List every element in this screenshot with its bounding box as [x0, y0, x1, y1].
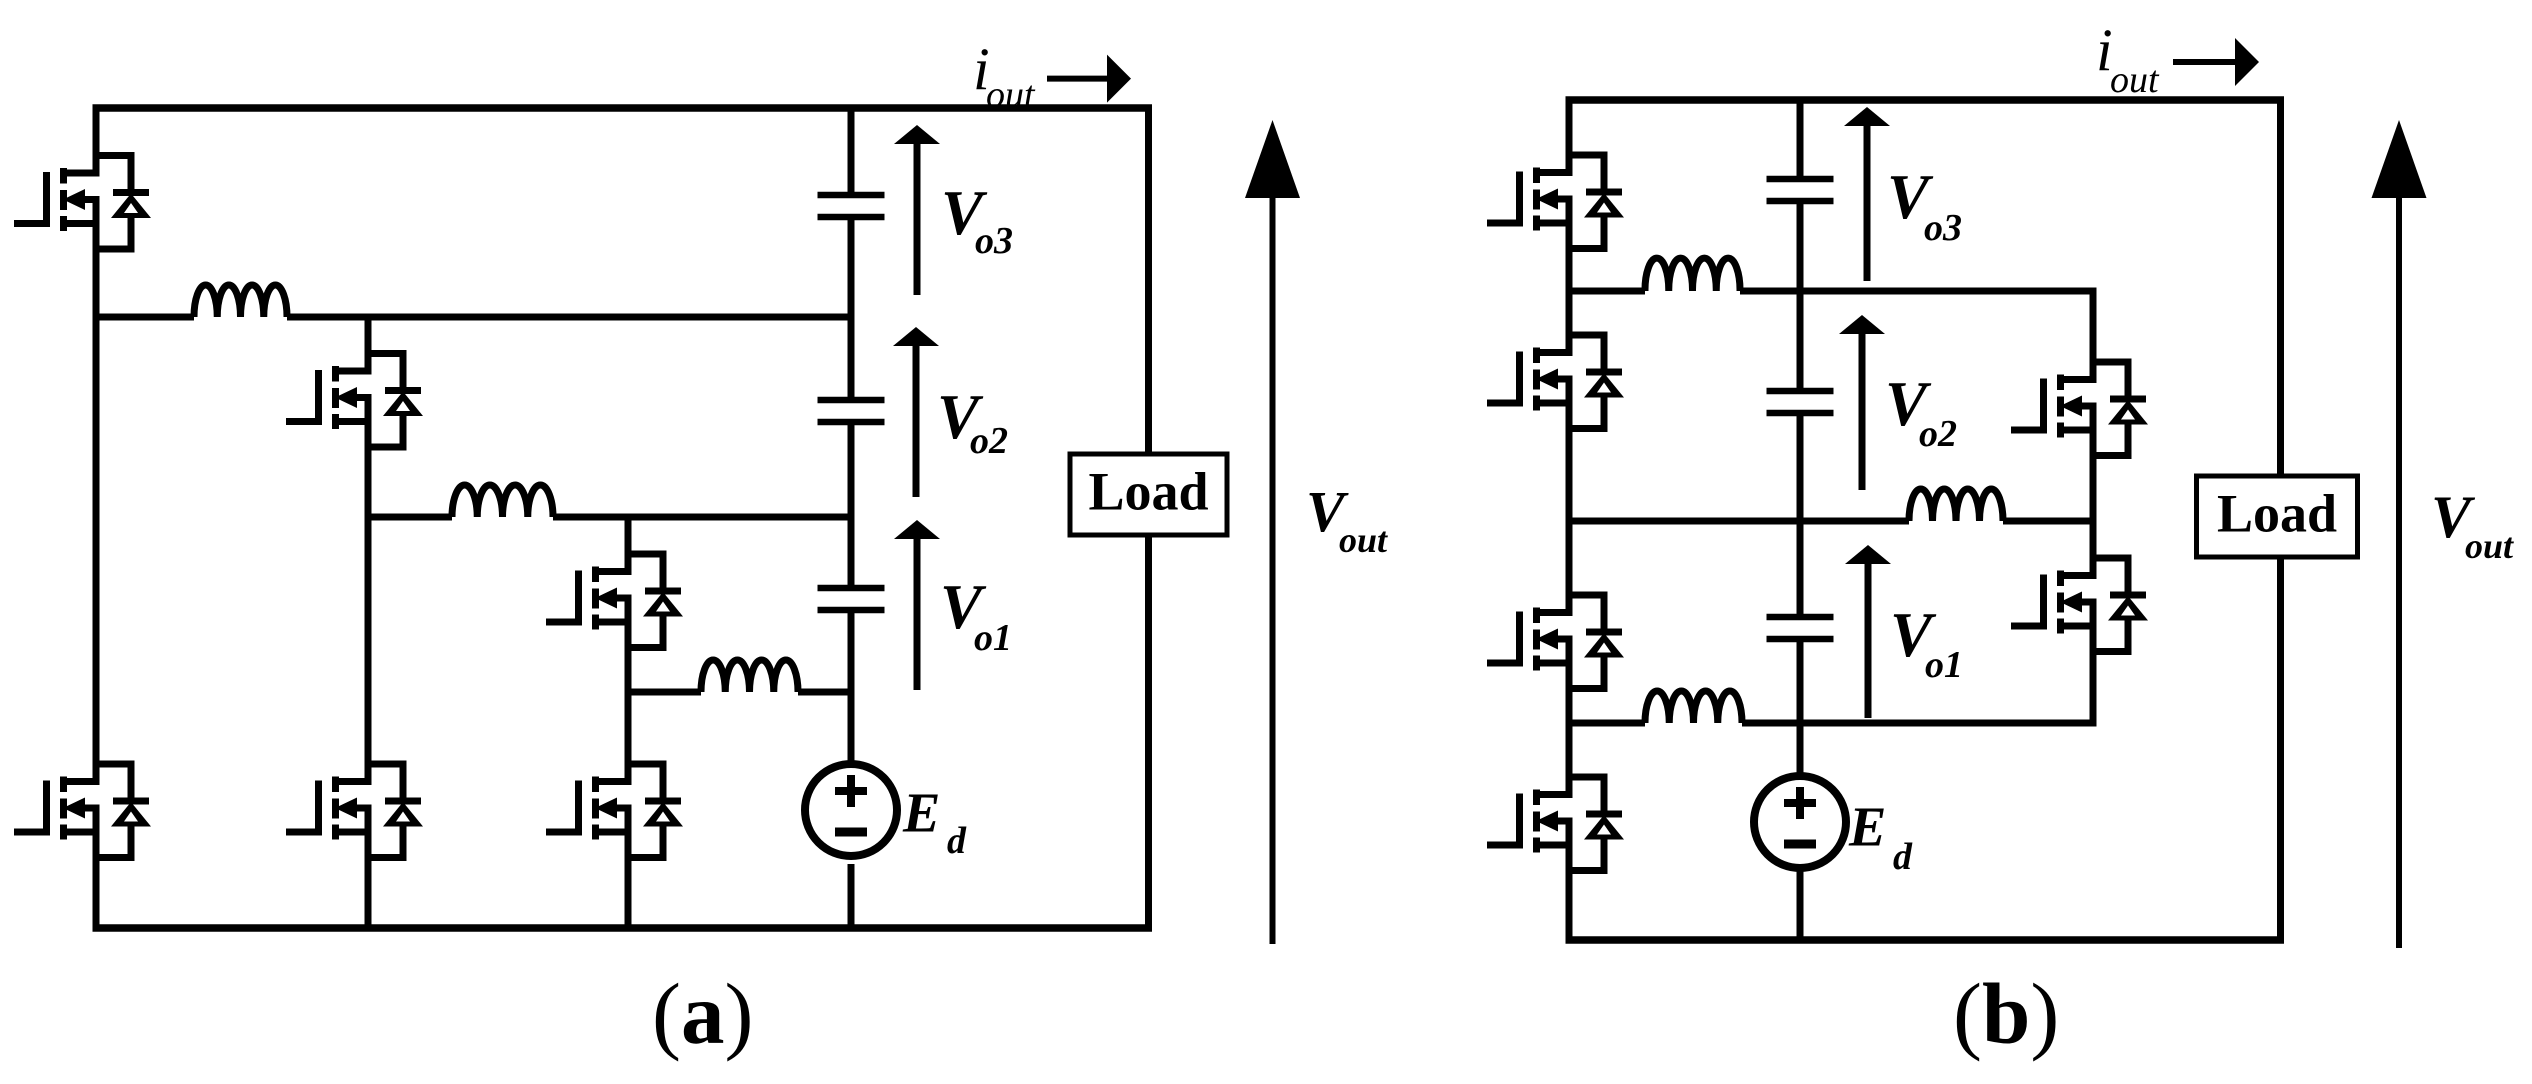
- inductor L6: [1645, 258, 1740, 291]
- arrow V o3 (a): [894, 125, 940, 295]
- transistor Q2: [286, 338, 423, 458]
- label V o2 (b): [1885, 369, 1957, 455]
- transistor Q1: [14, 140, 151, 260]
- svg-text:(a): (a): [652, 965, 753, 1062]
- arrow V o2 (a): [893, 327, 939, 497]
- svg-text:o3: o3: [1924, 207, 1962, 249]
- label V o1 (b): [1890, 600, 1963, 686]
- arrow V o1 (b): [1845, 545, 1891, 718]
- inductor L2: [452, 485, 553, 517]
- arrow V o3 (b): [1844, 107, 1890, 281]
- label i out (b): [2096, 17, 2160, 101]
- inductor L4: [1645, 691, 1742, 723]
- wire: circuit (a) top rail: [93, 104, 1153, 112]
- capacitor C3: [818, 195, 885, 217]
- transistor Q7: [1487, 139, 1624, 259]
- svg-text:out: out: [2110, 59, 2160, 101]
- wire: level-2 node left segment (a): [96, 314, 194, 321]
- wire: level-3 node right segment (b): [2003, 518, 2097, 525]
- transistor Q9: [2011, 346, 2148, 466]
- svg-text:o1: o1: [1925, 644, 1963, 686]
- svg-text:E: E: [1848, 797, 1886, 859]
- svg-text:E: E: [902, 783, 940, 845]
- transistor Q12: [1487, 761, 1624, 881]
- wire: Q9/Q11 branch vertical (b): [2090, 291, 2097, 723]
- svg-text:out: out: [1339, 520, 1388, 560]
- svg-text:out: out: [986, 74, 1036, 116]
- capacitor C1: [818, 588, 885, 610]
- capacitor C2: [818, 400, 885, 422]
- svg-text:(b): (b): [1953, 965, 2059, 1062]
- capacitor C6: [1767, 179, 1834, 201]
- wire: capacitor chain segments (b): [1797, 100, 1804, 940]
- label V out (a): [1306, 479, 1388, 560]
- label Ed (a): [902, 783, 967, 863]
- wire: level-4 node left segment (a): [628, 689, 701, 696]
- svg-text:Load: Load: [1088, 462, 1208, 522]
- svg-text:d: d: [1893, 836, 1913, 878]
- wire: circuit (a) right rail upper: [1145, 108, 1152, 454]
- arrow V o1 (a): [894, 520, 940, 690]
- arrow V o2 (b): [1839, 315, 1885, 490]
- svg-text:out: out: [2465, 526, 2514, 566]
- label V o1 (a): [940, 572, 1012, 659]
- wire: circuit (b) bottom rail: [1566, 936, 2285, 944]
- label i out (a): [973, 36, 1036, 116]
- transistor Q6: [546, 748, 683, 868]
- inductor L3: [194, 285, 287, 317]
- wire: circuit (a) right rail lower: [1145, 535, 1152, 928]
- wire: circuit (b) top rail: [1566, 96, 2285, 104]
- inductor L1: [701, 660, 798, 692]
- arrow V out (b): [2372, 120, 2427, 948]
- wire: Q2 branch vertical: [365, 317, 372, 928]
- voltage source Ed (b): [1754, 776, 1846, 868]
- wire: circuit (a) left rail segments: [93, 108, 100, 928]
- wire: level-3 node left segment (b): [1569, 518, 1909, 525]
- transistor Q5: [286, 748, 423, 868]
- arrow V out (a): [1245, 120, 1300, 944]
- wire: circuit (b) right rail lower: [2277, 556, 2284, 940]
- transistor Q3: [546, 538, 683, 658]
- label V o2 (a): [937, 382, 1008, 462]
- wire: Q3 branch vertical: [625, 517, 632, 928]
- svg-text:Load: Load: [2217, 484, 2337, 544]
- label V o3 (a): [941, 178, 1013, 262]
- wire: level-4 node right segment to source Ed (a): [798, 689, 851, 696]
- svg-text:o3: o3: [975, 220, 1013, 262]
- capacitor C4: [1767, 617, 1834, 639]
- capacitor C5: [1767, 391, 1834, 413]
- transistor Q11: [2011, 542, 2148, 662]
- label V out (b): [2431, 484, 2514, 566]
- svg-text:d: d: [947, 820, 967, 862]
- wire: level-2 node left segment (b): [1569, 288, 1645, 295]
- wire: level-3 node left segment (a): [368, 514, 452, 521]
- wire: level-4 node right segment (b): [1742, 720, 2097, 727]
- wire: circuit (b) left rail segments: [1566, 100, 1573, 940]
- wire: level-3 node right segment to capacitor C2 (a): [553, 514, 851, 521]
- arrow i out (a): [1047, 55, 1131, 103]
- arrow i out (b): [2173, 38, 2259, 86]
- label Ed (b): [1848, 797, 1913, 879]
- label V o3 (b): [1887, 162, 1962, 249]
- wire: circuit (a) bottom rail: [93, 924, 1153, 932]
- transistor Q4: [14, 748, 151, 868]
- resistor Load (a): [1070, 454, 1227, 535]
- wire: level-2 node right segment to capacitor C3 (a): [287, 314, 851, 321]
- transistor Q8: [1487, 319, 1624, 439]
- transistor Q10: [1487, 579, 1624, 699]
- resistor Load (b): [2197, 476, 2358, 557]
- voltage source Ed (a): [805, 764, 897, 856]
- wire: circuit (b) right rail upper: [2277, 100, 2284, 477]
- inductor L5: [1909, 489, 2003, 521]
- svg-text:o2: o2: [970, 420, 1008, 462]
- svg-text:o1: o1: [974, 617, 1012, 659]
- wire: level-2 node right segment (b): [1740, 288, 2097, 295]
- wire: capacitor chain segments (a): [848, 108, 855, 928]
- svg-text:o2: o2: [1919, 413, 1957, 455]
- wire: level-4 node left segment (b): [1569, 720, 1645, 727]
